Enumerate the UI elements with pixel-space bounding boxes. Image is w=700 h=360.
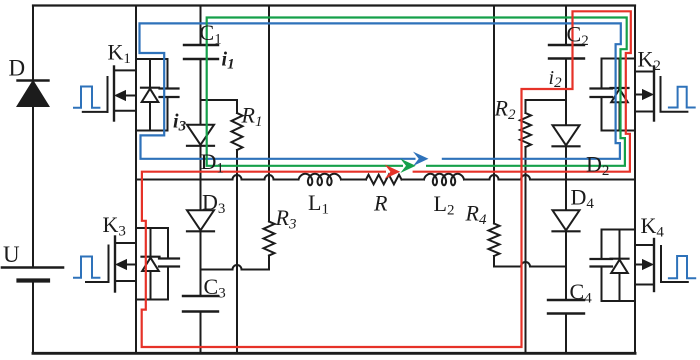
current path i1 (green loop) [207,18,627,166]
capacitor C1 [184,45,218,59]
svg-text:K2: K2 [638,47,661,75]
wire middle load rail with crossover hops [136,175,634,180]
capacitor C4 [548,300,584,314]
wire K2 module top bar [602,58,636,60]
wire R4 column from top rail [493,6,495,224]
transistor K4 [653,239,655,291]
svg-text:K1: K1 [108,40,131,68]
svg-text:D4: D4 [571,185,595,213]
transistor K3 [114,237,116,292]
svg-text:C3: C3 [204,274,226,302]
wire K4 module top bar [602,229,636,231]
wire K3 module bottom bar [136,299,168,301]
resistor R (load) [366,175,402,185]
diode D4 [553,210,580,231]
wire K4 module bottom bar [602,300,636,302]
diode D [18,81,49,107]
wire C1/D1/D3/C3 column [200,6,202,354]
svg-text:L2: L2 [434,191,455,219]
wire R2 to bottom rail [525,147,527,353]
wire K3 module top bar [136,227,168,229]
resistor R1 [232,113,243,150]
transistor K1 [113,67,115,121]
switch module K2 [591,59,688,131]
wire R4 bottom to C4/D4 junction with hop [494,256,566,267]
body diode of K4 [619,230,621,302]
inductor L1 [299,174,342,185]
svg-text:R1: R1 [241,103,263,131]
svg-text:K3: K3 [103,212,126,240]
svg-text:U: U [3,242,20,267]
svg-text:R: R [373,191,388,216]
body diode of K2 [619,59,621,131]
svg-text:D2: D2 [586,152,609,180]
current path i3 (blue loop) [140,23,621,158]
arrowhead of i2 [385,165,401,179]
gate pulse of K3 [73,257,100,278]
snubber capacitor of K1 [167,59,169,131]
wire left source branch [32,6,34,354]
gate pulse of K2 [668,87,696,108]
wire right bridge leg (K2/K4 column) [634,6,636,354]
gate pulse of K1 [73,87,100,108]
svg-text:D1: D1 [201,149,224,177]
switch module K4 [591,230,688,302]
wire C2/D2/D4/C4 column [565,6,567,354]
transistor K2 [653,67,655,121]
arrowhead of i3 [413,152,429,166]
wire R3 bottom to C3/D3 junction with hop [201,256,270,270]
body diode of K1 [149,59,151,131]
wire top rail [33,4,635,6]
gate pulse of K4 [668,256,696,278]
resistor R2 [520,113,531,147]
svg-text:D3: D3 [202,190,225,218]
svg-text:C2: C2 [567,22,589,50]
svg-text:R4: R4 [465,201,487,229]
switch module K3 [86,228,179,300]
svg-text:i3: i3 [173,111,187,135]
snubber capacitor of K4 [601,230,603,302]
body diode of K3 [150,228,152,300]
wire R1 to bottom rail [236,150,238,353]
current path i2 (red loop) [142,11,631,347]
svg-text:i2: i2 [549,67,563,91]
switch module K1 [83,59,179,131]
diode D1 [187,125,214,146]
wire K2 module bottom bar [602,130,636,132]
svg-text:D: D [9,56,26,81]
svg-text:R3: R3 [275,205,297,233]
wire left bridge leg (K1/K3 column) [135,6,137,354]
wire K1 module bottom bar [136,130,168,132]
capacitor C2 [549,45,584,59]
resistor R1 top lead [201,100,238,113]
svg-text:L1: L1 [308,190,329,218]
battery U [2,268,63,281]
wire R3 column from top rail [268,6,270,222]
wire bottom rail [33,352,635,355]
resistor R3 [264,222,275,256]
diode D3 [187,210,214,231]
resistor R2 top lead [526,100,567,113]
snubber capacitor of K3 [167,228,169,300]
capacitor C3 [183,296,218,312]
svg-text:K4: K4 [641,213,665,241]
arrowhead of i1 [400,159,416,173]
snubber capacitor of K2 [601,59,603,131]
svg-text:R2: R2 [494,96,516,124]
inductor L2 [424,174,464,185]
svg-text:C4: C4 [570,279,593,307]
svg-text:i1: i1 [222,49,235,73]
resistor R4 [489,224,500,256]
diode D2 [553,125,580,146]
wire K1 module top bar [136,58,168,60]
